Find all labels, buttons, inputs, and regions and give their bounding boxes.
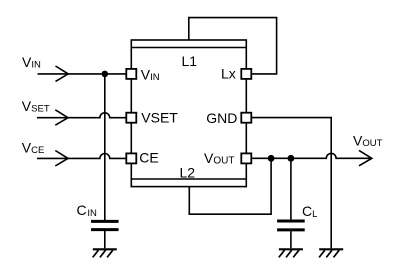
node junction dot VOUT-CL xyxy=(288,155,295,162)
capacitor CL xyxy=(277,221,305,248)
ground under CIN xyxy=(93,249,117,257)
svg-text:GND: GND xyxy=(206,110,237,126)
wire VCE input with hop xyxy=(37,153,126,158)
svg-text:L1: L1 xyxy=(182,53,198,69)
wire VSET input with hop xyxy=(37,113,126,118)
pin Lx square xyxy=(241,69,251,79)
pin GND square xyxy=(241,113,251,123)
ground under GND wire xyxy=(319,249,343,257)
svg-text:VSET: VSET xyxy=(141,109,178,125)
arrow VIN input xyxy=(56,66,69,81)
arrow VCE input xyxy=(55,151,68,166)
pin CE square xyxy=(126,153,136,163)
pin VIN square xyxy=(126,69,136,79)
node junction dot VIN xyxy=(102,71,109,78)
wire GND pin to ground xyxy=(251,118,331,249)
pin VOUT square xyxy=(241,153,251,163)
wire top loop L1 to Lx xyxy=(189,18,277,74)
ground under CL xyxy=(279,249,303,257)
wire VOUT node down to CL xyxy=(290,158,292,220)
arrow VOUT output xyxy=(359,150,372,165)
wire VIN node down to CIN xyxy=(104,74,106,220)
svg-text:Lx: Lx xyxy=(221,66,236,82)
wire L2 bottom loop to VOUT node xyxy=(189,158,271,214)
svg-text:CE: CE xyxy=(139,149,158,165)
node junction dot VOUT-L2 loop xyxy=(268,155,275,162)
op-amp U1 (IC body outline) xyxy=(131,40,246,187)
svg-text:L2: L2 xyxy=(180,165,196,181)
capacitor CIN xyxy=(91,221,119,248)
wire VIN input xyxy=(38,73,127,75)
wire VOUT output with hop xyxy=(251,153,371,158)
arrow VSET input xyxy=(55,110,68,125)
pin VSET square xyxy=(126,113,136,123)
